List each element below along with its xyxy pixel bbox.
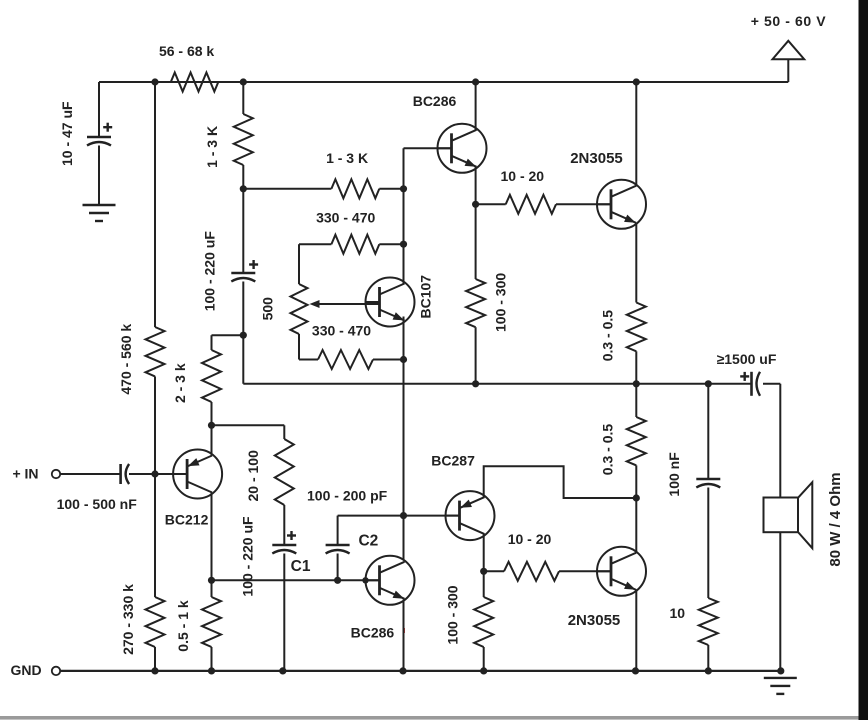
capacitor >=1500uF output xyxy=(717,351,777,396)
node rail x211 xyxy=(208,667,215,674)
node T x404 y515 xyxy=(400,512,407,519)
wire input cap to node xyxy=(129,473,155,475)
transistor Q5 BC286 (bottom) xyxy=(351,556,415,641)
ground (bottom right) xyxy=(764,678,797,694)
svg-text:0.3 - 0.5: 0.3 - 0.5 xyxy=(599,424,615,476)
black right border xyxy=(859,0,868,720)
svg-text:270 - 330 k: 270 - 330 k xyxy=(120,584,136,655)
node C top rail x476 xyxy=(472,78,479,85)
node O x155 y474 xyxy=(151,470,158,477)
svg-text:BC212: BC212 xyxy=(165,511,209,527)
wire 2N3055b collector up xyxy=(635,498,637,553)
capacitor 10-47uF xyxy=(59,101,112,166)
node rail x284 xyxy=(279,667,286,674)
svg-text:C2: C2 xyxy=(358,532,378,549)
wire bottom ground rail xyxy=(60,670,780,672)
svg-text:100 - 220 uF: 100 - 220 uF xyxy=(240,516,256,597)
svg-text:470 - 560 k: 470 - 560 k xyxy=(118,324,134,395)
wire y425 to 20-100 xyxy=(212,424,285,426)
node D top rail x636 xyxy=(633,78,640,85)
svg-text:80 W / 4 Ohm: 80 W / 4 Ohm xyxy=(827,472,844,566)
svg-text:330 - 470: 330 - 470 xyxy=(316,209,375,225)
svg-text:+ 50 - 60 V: + 50 - 60 V xyxy=(751,13,827,29)
speaker 80W/4Ohm xyxy=(764,472,845,566)
wire cap to ground xyxy=(98,146,100,206)
resistor 1-3K horizontal xyxy=(243,150,403,198)
node E x243 y189 xyxy=(240,185,247,192)
wire y580 to BC286b base xyxy=(212,579,380,581)
svg-text:10 - 47 uF: 10 - 47 uF xyxy=(59,101,75,166)
wire main column top xyxy=(403,148,405,283)
wire output cap to speaker xyxy=(763,384,780,498)
wire BC286b emitter to rail xyxy=(403,600,405,671)
transistor Q2 2N3055 (top) xyxy=(570,150,646,229)
resistor 20-100 xyxy=(245,425,294,544)
svg-text:BC287: BC287 xyxy=(431,453,475,469)
svg-text:100 - 300: 100 - 300 xyxy=(445,585,461,644)
svg-text:56 - 68 k: 56 - 68 k xyxy=(159,43,214,59)
node J x476 y204 xyxy=(472,201,479,208)
node H x404 y244 xyxy=(400,241,407,248)
resistor 330-470 lower xyxy=(299,323,404,370)
capacitor 100-220uF upper xyxy=(202,189,259,311)
svg-text:330 - 470: 330 - 470 xyxy=(312,323,371,339)
node A top rail x155 xyxy=(151,78,158,85)
wire 0.3-0.5 to mid rail xyxy=(635,351,637,384)
grey bottom border xyxy=(0,716,859,720)
wire 470-560k to +IN node xyxy=(154,376,156,474)
capacitor 100-500nF input xyxy=(57,464,138,512)
wire C2 top from column xyxy=(338,515,404,517)
wire BC212 collector down xyxy=(211,493,213,581)
svg-text:2 - 3 k: 2 - 3 k xyxy=(172,363,188,403)
svg-text:BC286: BC286 xyxy=(413,93,457,109)
node rail x636 xyxy=(632,667,639,674)
wire C1 to ground rail xyxy=(283,554,285,671)
svg-text:0.5 - 1 k: 0.5 - 1 k xyxy=(175,600,191,652)
resistor 100-300 bottom xyxy=(445,571,494,671)
svg-text:GND: GND xyxy=(10,662,41,678)
transistor Q6 BC287 xyxy=(431,453,494,541)
transistor Q7 2N3055 (bottom) xyxy=(568,547,646,629)
wire BC286b collector up xyxy=(403,384,405,561)
node M mid rail x708 xyxy=(705,380,712,387)
svg-text:10 - 20: 10 - 20 xyxy=(508,531,552,547)
resistor 470-560k xyxy=(118,324,165,395)
wire 470-560k column upper xyxy=(154,82,156,327)
svg-text:+ IN: + IN xyxy=(12,466,38,482)
svg-text:≥1500 uF: ≥1500 uF xyxy=(717,351,777,367)
resistor 2-3k xyxy=(172,335,243,425)
svg-text:2N3055: 2N3055 xyxy=(570,150,623,167)
node R x338 y580 xyxy=(334,577,341,584)
resistor 0.3-0.5 lower xyxy=(599,384,646,498)
resistor 1-3K vertical xyxy=(204,114,253,168)
capacitor C1 100-220uF xyxy=(240,516,311,597)
node L mid rail x636 xyxy=(633,380,640,387)
potentiometer 500 xyxy=(260,284,380,334)
resistor 330-470 upper xyxy=(299,209,404,253)
wire left branch down from rail xyxy=(98,82,100,136)
node rail x155 xyxy=(151,667,158,674)
svg-text:100 - 220 uF: 100 - 220 uF xyxy=(202,231,218,312)
wire 2N3055t collector to rail xyxy=(635,82,637,187)
resistor 0.5-1k xyxy=(175,580,221,671)
svg-text:100 nF: 100 nF xyxy=(666,452,682,497)
svg-text:100 - 500 nF: 100 - 500 nF xyxy=(57,496,138,512)
svg-text:0.3 - 0.5: 0.3 - 0.5 xyxy=(599,310,615,362)
svg-text:10: 10 xyxy=(670,605,686,621)
wire BC286 top base xyxy=(404,147,452,149)
node S x365 y580 xyxy=(362,577,368,583)
wire mid rail left xyxy=(243,383,751,385)
svg-text:100 - 300: 100 - 300 xyxy=(493,273,509,332)
capacitor 100nF xyxy=(666,384,720,497)
resistor 0.3-0.5 upper xyxy=(599,303,646,362)
wire main column mid xyxy=(403,360,405,561)
node rail x708 xyxy=(705,667,712,674)
svg-text:100 - 200 pF: 100 - 200 pF xyxy=(307,488,388,504)
wire pot bottom lead xyxy=(298,334,300,360)
wire speaker to ground xyxy=(779,532,781,671)
transistor Q3 BC107 xyxy=(366,275,434,327)
wire base BC212 xyxy=(155,473,187,475)
wire BC212 emitter up xyxy=(211,425,213,455)
wire BC287 base xyxy=(404,384,459,561)
transistor Q1 BC286 (top) xyxy=(413,93,487,173)
wire BC107 emitter to node xyxy=(403,317,405,360)
node rail x403 xyxy=(399,667,406,674)
svg-text:C1: C1 xyxy=(291,558,311,575)
node B top rail x243 xyxy=(240,78,247,85)
transistor Q4 BC212 xyxy=(165,450,222,528)
svg-text:BC286: BC286 xyxy=(351,625,395,641)
terminal GND xyxy=(10,662,60,678)
terminal +IN xyxy=(12,466,60,482)
node rail x484 xyxy=(480,667,487,674)
wire top supply rail xyxy=(99,81,788,83)
wire BC286t emitter down xyxy=(475,167,477,204)
wire BC287 emitter down xyxy=(483,534,485,571)
node K mid rail x476 xyxy=(472,380,479,387)
wire pot top lead xyxy=(298,244,300,284)
resistor 270-330k xyxy=(120,474,165,671)
red mark xyxy=(403,628,406,633)
wire 2N3055t emitter down xyxy=(635,223,637,303)
wire 1-3K to node xyxy=(242,165,244,189)
node P x211 y425 xyxy=(208,422,215,429)
wire BC286t collector to rail xyxy=(475,82,477,131)
resistor 56-68k xyxy=(155,43,243,91)
wire 2N3055b emitter to rail xyxy=(635,589,637,671)
node Q x211 y580 xyxy=(208,577,215,584)
svg-text:1 - 3 K: 1 - 3 K xyxy=(326,150,368,166)
node F x243 y335 xyxy=(240,332,247,339)
wire +IN lead xyxy=(60,473,120,475)
wire C2 bottom to y580 xyxy=(337,554,339,581)
svg-text:20 - 100: 20 - 100 xyxy=(245,450,261,502)
node rail x780 xyxy=(777,667,784,674)
node U x484 y571 xyxy=(480,568,487,575)
node N x636 y498 xyxy=(633,494,640,501)
node I x404 y359 xyxy=(400,356,407,363)
svg-text:2N3055: 2N3055 xyxy=(568,612,621,629)
svg-text:1 - 3 K: 1 - 3 K xyxy=(204,126,220,168)
node G x404 y189 xyxy=(400,185,407,192)
resistor 10-20 bottom xyxy=(484,531,611,581)
svg-text:500: 500 xyxy=(260,297,276,321)
svg-text:BC107: BC107 xyxy=(418,275,434,319)
wire BC287 collector step xyxy=(484,466,637,498)
wire 100nF to 10 xyxy=(707,488,709,599)
ground (top left) xyxy=(83,205,116,221)
resistor 10 xyxy=(670,598,718,671)
resistor 10-20 top xyxy=(476,168,611,214)
power supply +50-60V symbol xyxy=(751,13,827,82)
resistor 100-300 top xyxy=(466,204,508,383)
capacitor C2 100-200pF xyxy=(307,488,388,554)
wire 1-3K vert lead xyxy=(242,82,244,114)
wire cap to bend node xyxy=(242,282,244,384)
svg-text:10 - 20: 10 - 20 xyxy=(501,168,545,184)
